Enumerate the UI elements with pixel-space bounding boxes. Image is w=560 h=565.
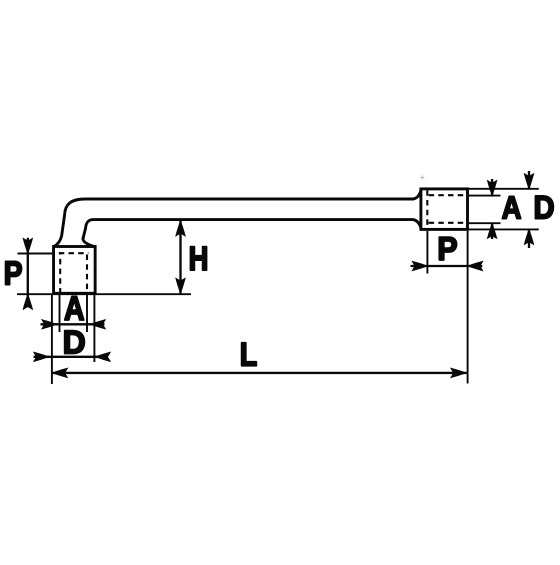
right A dimension lower leg	[491, 223, 493, 239]
label H	[190, 247, 206, 270]
label D right	[535, 196, 553, 219]
right P arrows	[412, 261, 427, 270]
label P right	[439, 237, 456, 260]
right socket hidden bore (dashed)	[427, 190, 463, 228]
right D dimension lower leg	[528, 229, 530, 248]
left A arrows	[42, 320, 57, 329]
left D extension lines	[51, 294, 53, 384]
label A right	[502, 197, 520, 219]
wrench shaft outer (left/top) outline	[54, 191, 421, 247]
left P upper arrow	[23, 238, 32, 253]
right D arrows	[524, 174, 533, 189]
L arrows	[52, 368, 67, 377]
left A extension lines	[59, 294, 61, 332]
H arrows	[176, 221, 185, 236]
label P left	[6, 262, 22, 285]
right D extension lines	[468, 188, 539, 190]
label L	[242, 343, 257, 366]
left P dimension line	[27, 238, 29, 307]
H dimension line	[179, 221, 181, 294]
left P top extension line	[18, 253, 54, 255]
right P extension line	[426, 231, 428, 274]
left D dimension line	[34, 356, 108, 358]
left A dimension line	[41, 323, 105, 325]
label D left	[65, 331, 85, 354]
faint registration speck	[420, 175, 424, 179]
wrench body: left socket outer rectangle	[54, 247, 96, 294]
wrench shaft inner (right/bottom) outline	[83, 220, 421, 247]
right D dimension upper leg	[528, 171, 530, 189]
left P lower arrow	[23, 294, 32, 309]
left D arrows	[34, 352, 49, 361]
L right extension line	[467, 231, 469, 384]
L dimension line	[52, 372, 466, 374]
label A left	[65, 297, 84, 320]
left socket hidden bore (dashed)	[59, 253, 89, 293]
right A dimension upper leg	[491, 179, 493, 196]
right socket outer rectangle	[421, 189, 468, 230]
right P dimension line	[411, 265, 483, 267]
bottom reference line (socket mouth / H base)	[17, 293, 191, 295]
right A arrows	[487, 180, 496, 195]
right A extension lines	[468, 195, 501, 197]
